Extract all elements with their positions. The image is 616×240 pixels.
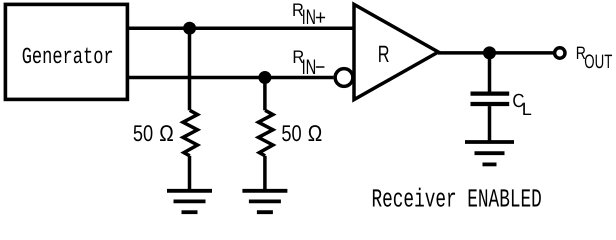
svg-text:Receiver ENABLED: Receiver ENABLED (372, 184, 542, 214)
svg-text:OUT: OUT (584, 51, 612, 73)
svg-text:IN: IN (302, 6, 316, 29)
svg-text:+: + (315, 7, 326, 30)
svg-text:L: L (522, 99, 532, 119)
svg-text:50: 50 (281, 120, 301, 146)
svg-text:Ω: Ω (159, 120, 173, 146)
svg-text:50: 50 (133, 120, 153, 146)
svg-text:−: − (315, 56, 325, 79)
svg-text:R: R (378, 42, 390, 68)
svg-text:Ω: Ω (308, 120, 322, 146)
svg-text:IN: IN (302, 56, 317, 79)
svg-text:Generator: Generator (22, 44, 114, 70)
